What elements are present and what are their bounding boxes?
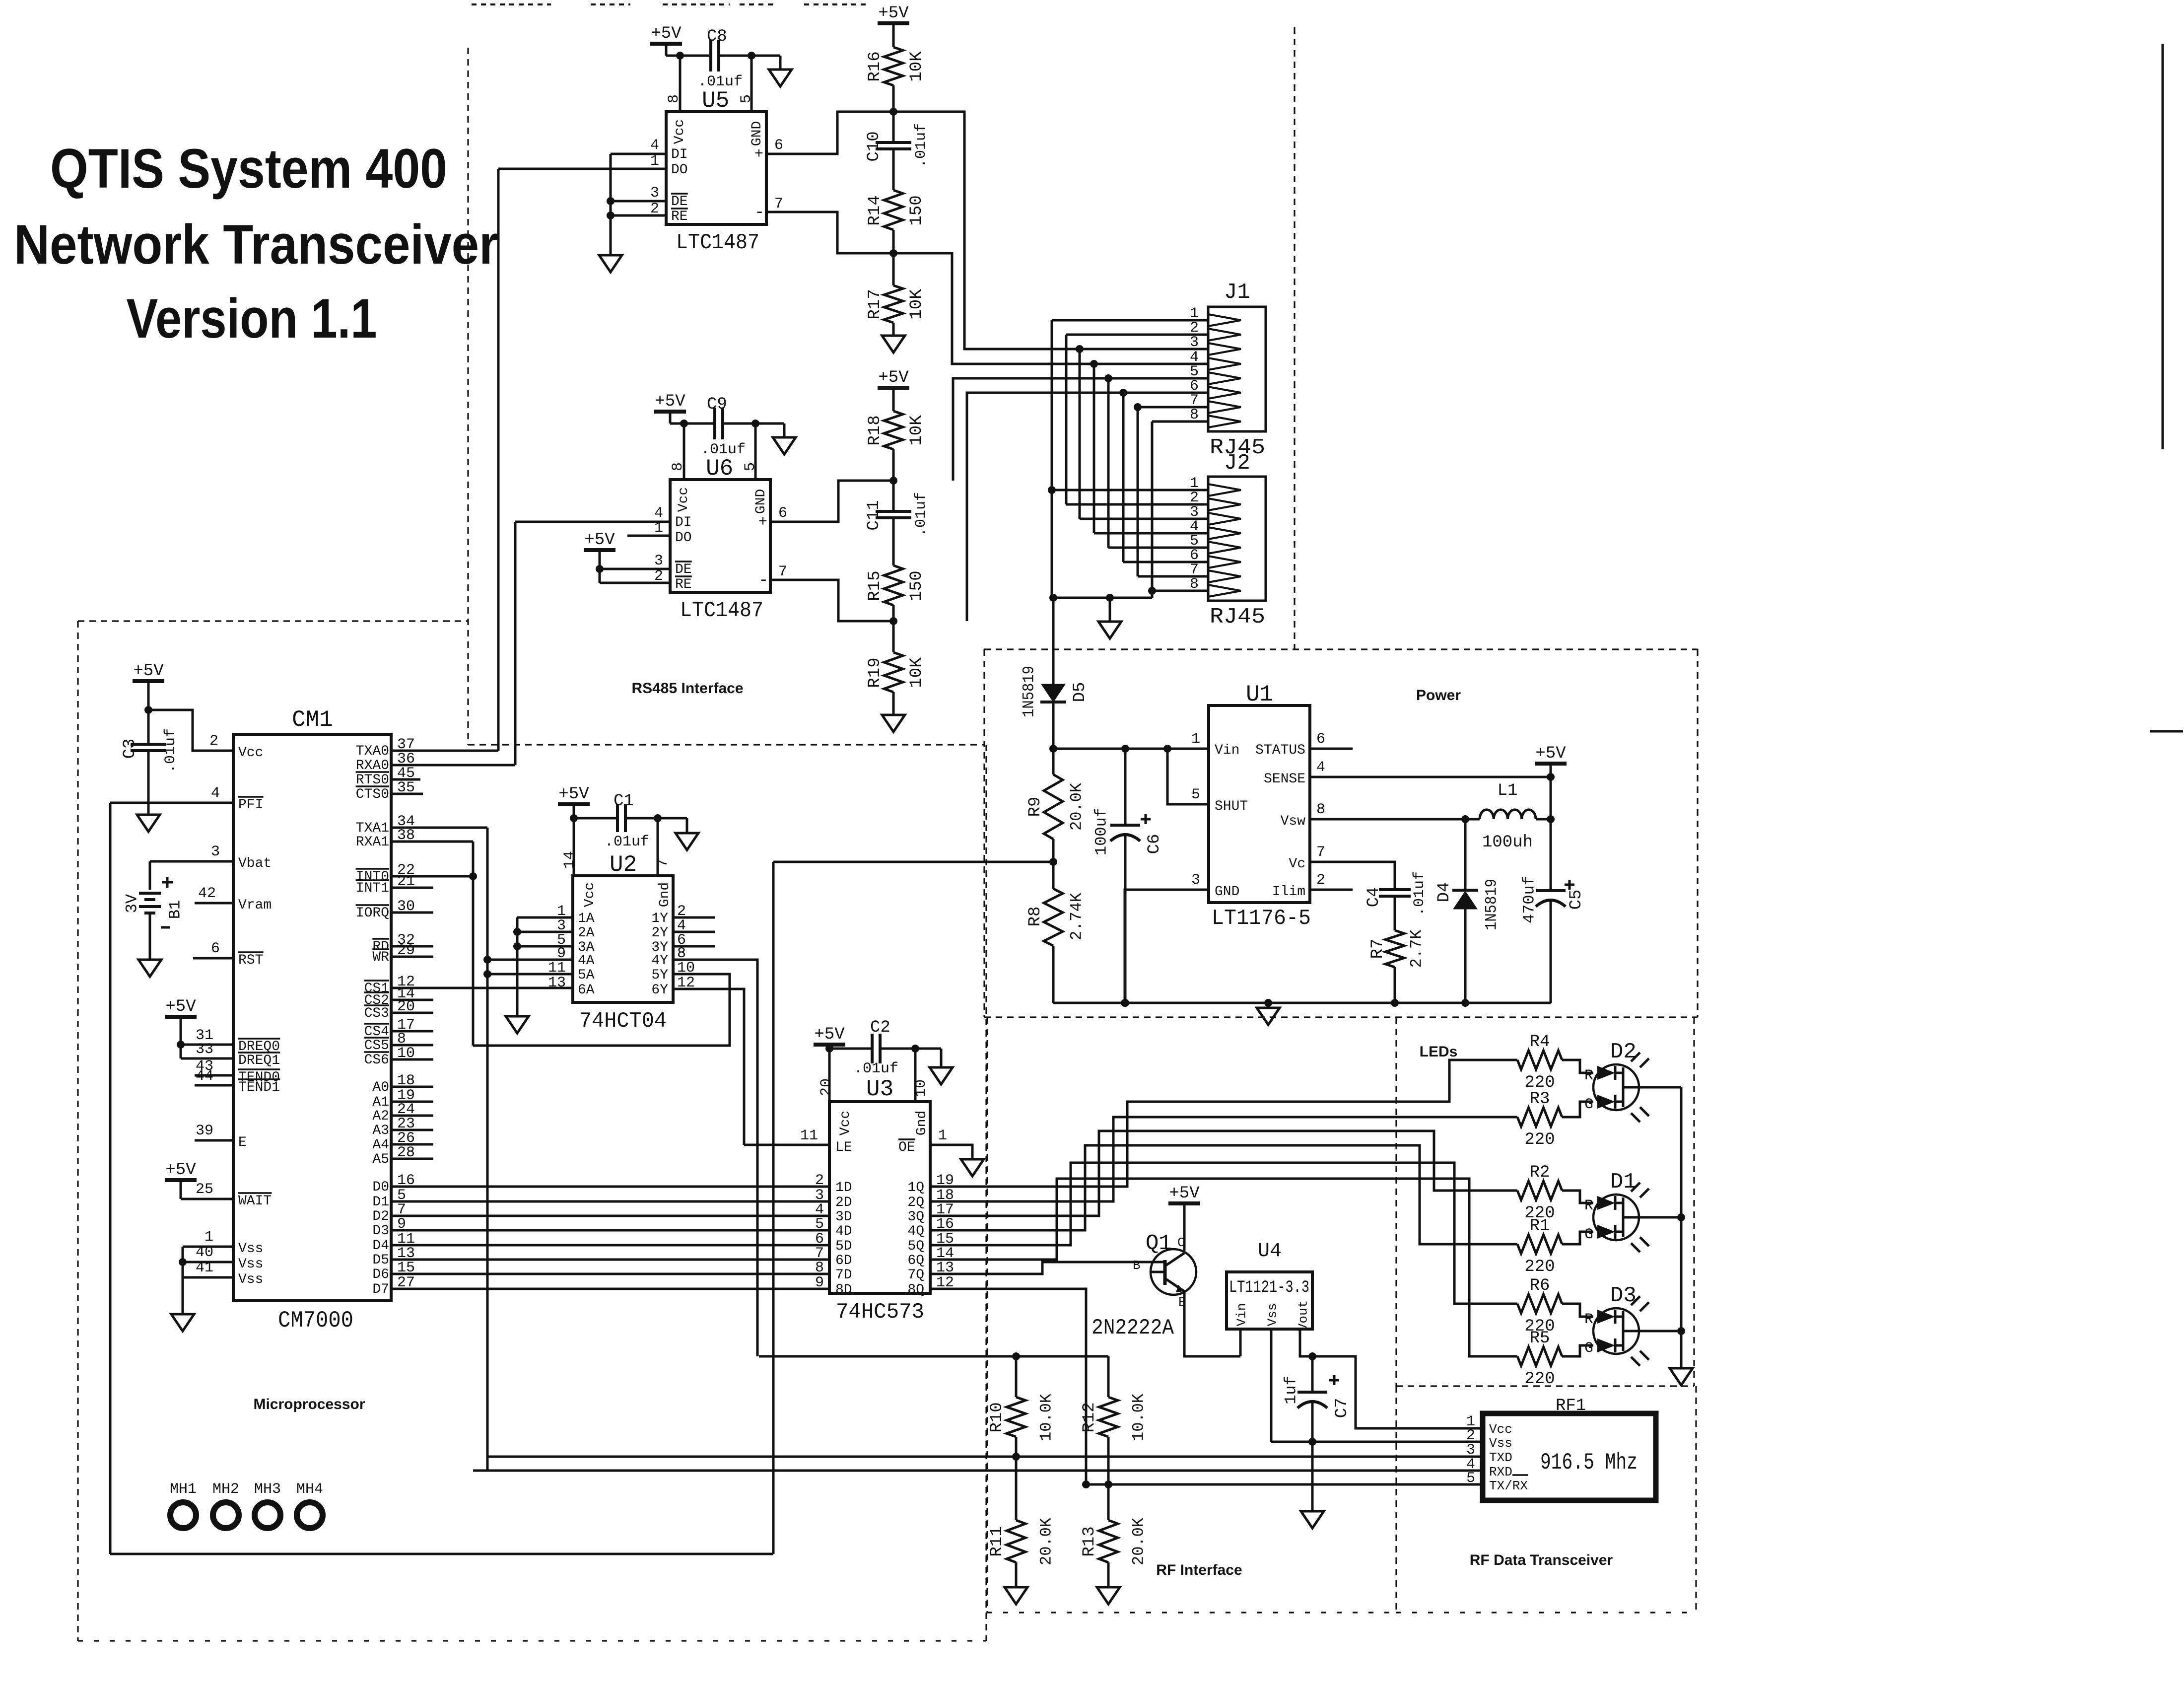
wire shield rail [1052,597,1152,599]
wire J2.8 feed [1152,590,1208,592]
svg-text:Vss: Vss [1489,1436,1512,1451]
resistor R2 220 [1482,1190,1517,1192]
stub 2Y [673,931,715,933]
svg-text:IORQ: IORQ [356,906,389,921]
svg-text:LE: LE [835,1140,852,1155]
wire 6Q to R5 [930,1179,1482,1356]
svg-text:220: 220 [1524,1370,1555,1389]
op-amp-box U5 LTC1487 [666,112,766,224]
svg-text:RST: RST [238,953,263,968]
svg-text:.01uf: .01uf [698,73,743,90]
svg-text:C6: C6 [1145,834,1164,854]
wire pin5 (U6) [754,423,757,480]
stub 1Y [673,916,715,919]
svg-text:QTIS System 400: QTIS System 400 [50,138,447,200]
svg-text:14: 14 [561,851,578,869]
mounting hole MH1 [170,1502,196,1528]
ground (C7) [1301,1511,1324,1528]
svg-text:+5V: +5V [878,368,909,387]
svg-text:+5V: +5V [878,4,909,23]
svg-text:Vcc: Vcc [838,1111,853,1135]
svg-text:100uh: 100uh [1482,833,1533,852]
wire 4Y to pullup rail [673,960,757,1356]
svg-text:G: G [1584,1226,1593,1243]
wire 4A from TXA1 [487,959,573,961]
transistor Q1 2N2222A [1151,1249,1196,1295]
svg-text:+5V: +5V [651,24,682,43]
svg-text:B: B [1133,1258,1141,1273]
resistor R18 10K [884,411,903,449]
LEDs section border [1395,1017,1397,1386]
svg-text:A4: A4 [372,1137,389,1153]
RF Data Transceiver section border [1395,1386,1397,1613]
svg-text:10K: 10K [907,289,926,320]
wire 8Q to RF TX/RX [930,1289,1086,1484]
svg-text:G: G [1584,1340,1593,1357]
svg-text:C4: C4 [1365,887,1383,908]
wire 5Y loop to RXA1 [473,974,730,1046]
battery B1 3V [139,892,161,895]
svg-text:U6: U6 [706,456,733,482]
svg-text:Gnd: Gnd [914,1111,930,1135]
wire R10-R11 link [1015,1437,1018,1520]
svg-text:2N2222A: 2N2222A [1092,1316,1174,1340]
wire J1.1 to J2.1/J2.8 tie [1052,319,1208,322]
svg-text:MH1: MH1 [170,1481,197,1498]
svg-text:Vram: Vram [238,898,272,913]
svg-text:RXD: RXD [1489,1465,1512,1479]
page edge artifact right [2162,44,2164,449]
svg-text:TXA0: TXA0 [356,744,389,759]
svg-text:U1: U1 [1246,682,1273,707]
svg-text:LT1176-5: LT1176-5 [1212,906,1311,931]
wire U4 Vout to RF Vcc [1300,1329,1483,1428]
wire LED common bus [1680,1087,1683,1368]
svg-text:5A: 5A [578,968,595,983]
capacitor C7 1uf [1311,1356,1314,1392]
svg-text:MH4: MH4 [296,1481,323,1498]
svg-text:R5: R5 [1530,1329,1550,1348]
svg-text:7: 7 [774,196,783,212]
svg-text:D4: D4 [1435,882,1454,903]
wire U2 inputs ground tie [517,916,573,919]
svg-text:WAIT: WAIT [238,1194,272,1209]
ground (Vss) [171,1314,194,1331]
svg-text:7: 7 [778,563,787,580]
svg-text:C8: C8 [707,27,727,46]
resistor R16 10K [884,47,903,85]
svg-text:39: 39 [196,1123,213,1139]
wire pin5 [751,56,753,112]
svg-text:Q1: Q1 [1146,1231,1172,1256]
svg-text:8Q: 8Q [907,1282,924,1298]
wire J1.6 tap to J2.6 [1119,389,1127,397]
wire 7Q to Q1 base [930,1262,1165,1274]
ground (J2 rail) [1109,598,1111,622]
svg-text:CM1: CM1 [292,707,333,733]
svg-text:2A: 2A [578,925,595,941]
svg-text:OE: OE [898,1140,915,1155]
wire 1Q to R4 [930,1060,1482,1187]
IC U3 74HC573 [829,1102,930,1293]
svg-text:C5: C5 [1567,890,1586,910]
+5V rail (U6) [654,410,686,414]
svg-text:R: R [1584,1067,1593,1084]
capacitor C6 100uf [1124,749,1127,825]
svg-text:Vout: Vout [1296,1300,1310,1331]
svg-text:.01uf: .01uf [162,728,179,773]
IC U2 74HCT04 [573,876,673,1002]
svg-text:+5V: +5V [1169,1184,1200,1203]
svg-text:R9: R9 [1026,797,1045,817]
svg-text:74HCT04: 74HCT04 [579,1009,667,1034]
svg-text:1A: 1A [578,911,595,926]
svg-text:Vcc: Vcc [238,745,263,761]
wire 5A from TXA1 [487,973,573,976]
svg-text:C1: C1 [614,792,634,811]
svg-text:6D: 6D [835,1253,852,1268]
svg-text:DI: DI [671,147,688,162]
ground (U2 inputs) [506,1016,529,1033]
svg-text:MH2: MH2 [212,1481,239,1498]
svg-text:Ilim: Ilim [1272,884,1305,900]
svg-text:DO: DO [671,162,688,178]
LED D2 dual R/G [1593,1064,1639,1110]
svg-text:R10: R10 [988,1402,1007,1432]
wire C1 right / gnd [625,817,687,820]
svg-text:8D: 8D [835,1282,852,1298]
svg-text:4D: 4D [835,1224,852,1239]
svg-text:D2: D2 [1610,1040,1637,1064]
svg-text:1N5819: 1N5819 [1020,666,1038,717]
resistor R7 2.7K [1385,930,1404,967]
svg-text:6A: 6A [578,983,595,998]
wire U6 Vcc [670,422,715,425]
svg-text:100uf: 100uf [1092,808,1111,855]
resistor R10 10.0K [1015,1356,1018,1397]
svg-text:L1: L1 [1498,781,1518,800]
resistor R8 2.74K [1044,889,1063,946]
svg-text:GND: GND [750,121,765,146]
svg-text:R15: R15 [866,570,885,601]
svg-text:3V: 3V [123,894,141,913]
svg-text:20: 20 [818,1078,835,1096]
svg-text:LEDs: LEDs [1420,1044,1458,1060]
ground (OE) [961,1159,984,1176]
svg-text:+5V: +5V [655,392,685,411]
svg-text:1D: 1D [835,1180,852,1196]
svg-text:4: 4 [654,505,663,522]
svg-text:.01uf: .01uf [913,492,930,537]
wire J1.5 tap to J2.5 [1104,374,1112,382]
svg-text:5: 5 [1191,786,1200,803]
svg-text:2.74K: 2.74K [1068,892,1086,940]
svg-text:R13: R13 [1080,1526,1099,1556]
svg-text:.01uf: .01uf [854,1060,898,1077]
ground (C3) [137,815,160,832]
svg-text:+5V: +5V [584,531,615,550]
resistor R17 10K [884,285,903,323]
svg-text:6Q: 6Q [907,1253,924,1268]
IC U1 LT1176-5 [1209,705,1310,903]
wire R1 to D1.G [1562,1232,1593,1244]
resistor R6 220 [1482,1303,1517,1305]
svg-text:R1: R1 [1530,1217,1550,1236]
svg-text:11: 11 [800,1127,818,1144]
ground (LED bus) [1670,1368,1693,1385]
svg-text:3: 3 [1191,872,1200,889]
wire U4 Vin lead [1239,1329,1242,1356]
resistor R13 20.0K [1099,1520,1118,1562]
svg-text:D4: D4 [372,1238,389,1254]
svg-text:74HC573: 74HC573 [836,1300,924,1325]
wire U5 DO to TXA0 [497,169,500,751]
svg-text:1N5819: 1N5819 [1483,879,1501,930]
svg-text:D3: D3 [372,1223,389,1239]
resistor R14 150 [884,190,903,230]
svg-text:A1: A1 [372,1095,389,1110]
svg-text:U3: U3 [866,1076,893,1102]
svg-text:D1: D1 [1610,1170,1637,1195]
svg-text:TEND1: TEND1 [238,1080,280,1095]
wire Vcc [148,710,233,751]
svg-text:+5V: +5V [165,997,196,1016]
svg-text:1Y: 1Y [651,911,668,926]
ground (C8) [779,56,782,70]
svg-text:+: + [754,146,763,163]
wire U5 Vcc [666,55,711,57]
wire J1.3 tap to J2.3 [1076,345,1084,353]
svg-text:D5: D5 [1071,682,1090,703]
svg-text:Vc: Vc [1289,856,1305,872]
svg-text:10K: 10K [907,657,926,688]
svg-text:Vcc: Vcc [582,882,598,907]
svg-text:.01uf: .01uf [913,123,930,168]
wire R12-R13 link [1107,1437,1110,1520]
wire node D to J1.6 [967,393,1208,621]
svg-text:LTC1487: LTC1487 [680,598,763,623]
wire U2 pin14 [573,818,575,876]
svg-text:D5: D5 [372,1253,389,1268]
LED D1 dual R/G [1593,1195,1639,1240]
svg-text:1: 1 [650,153,659,170]
svg-text:2Q: 2Q [907,1195,924,1210]
svg-text:D7: D7 [372,1282,389,1297]
svg-text:B1: B1 [166,900,185,919]
svg-text:RE: RE [671,209,688,224]
svg-text:+5V: +5V [133,662,164,681]
svg-text:DO: DO [675,530,692,546]
svg-text:+5V: +5V [1535,744,1566,763]
wire PFI sense vertical [772,862,775,1554]
svg-text:INT1: INT1 [356,881,389,896]
svg-text:R: R [1584,1197,1593,1214]
svg-text:42: 42 [198,885,216,902]
IC CM1 CM7000 [233,734,391,1301]
svg-text:C7: C7 [1333,1398,1352,1418]
Microprocessor section border [78,620,468,622]
op-amp-box U6 LTC1487 [670,480,770,592]
wire R6 to D3.R [1562,1304,1593,1317]
connector J1 RJ45 [1208,307,1266,431]
module RF1 916.5 Mhz [1483,1413,1656,1500]
+5V rail (U5) [650,42,682,46]
RF Interface section border [986,1017,988,1613]
svg-text:8: 8 [1316,801,1325,818]
resistor R1 220 [1482,1243,1517,1246]
svg-text:TXD: TXD [1489,1450,1512,1465]
svg-text:Vin: Vin [1234,1303,1249,1327]
ground (C9) [783,423,786,437]
svg-text:5Y: 5Y [651,968,668,983]
svg-text:4A: 4A [578,953,595,969]
svg-text:4Q: 4Q [907,1224,924,1239]
svg-text:J1: J1 [1224,280,1250,305]
wire J1.7 to J2.7 [1138,406,1208,409]
svg-text:Vss: Vss [238,1241,263,1257]
wire 3Q to R2 [930,1131,1482,1216]
capacitor C1 .01uf [616,804,619,832]
wire RXA0 from U6 DI [391,764,515,767]
svg-text:+5V: +5V [814,1025,845,1044]
svg-text:.01uf: .01uf [605,834,649,850]
svg-text:DI: DI [675,515,692,530]
wire R2 to D1.R [1562,1191,1593,1203]
svg-text:13: 13 [548,975,566,991]
svg-text:470uf: 470uf [1520,876,1539,923]
mounting hole MH3 [255,1502,280,1528]
+5V rail (Q1) [1168,1201,1200,1205]
capacitor C11 .01uf [876,510,911,513]
svg-text:C9: C9 [707,395,727,414]
svg-text:3Q: 3Q [907,1209,924,1225]
wire U4 Vss lead [1270,1329,1273,1442]
svg-text:R11: R11 [988,1526,1007,1556]
svg-text:D6: D6 [372,1267,389,1282]
svg-text:150: 150 [907,570,926,601]
node PFI divider junction [1049,858,1057,866]
wire TXA1 [391,827,487,829]
wire J1.8 to J2.8 [1152,421,1208,423]
svg-text:Version 1.1: Version 1.1 [127,287,377,350]
svg-text:LT1121-3.3: LT1121-3.3 [1229,1278,1309,1297]
svg-text:C11: C11 [865,500,884,530]
svg-text:C: C [1177,1235,1185,1250]
svg-text:6: 6 [1316,731,1325,748]
+5V rail (R18) [878,386,909,390]
svg-text:CS3: CS3 [364,1006,389,1021]
svg-text:10K: 10K [907,51,926,82]
svg-text:4: 4 [1316,759,1325,776]
Power section border [984,648,1698,650]
svg-text:Vcc: Vcc [676,487,691,512]
resistor R15 150 [884,565,903,605]
wire J1.2 to J2.2 [1066,334,1208,336]
svg-text:2: 2 [209,733,218,750]
svg-text:2.7K: 2.7K [1408,929,1426,968]
svg-text:Microprocessor: Microprocessor [253,1396,365,1412]
svg-text:.01uf: .01uf [1411,871,1428,916]
svg-text:RF Data Transceiver: RF Data Transceiver [1470,1552,1613,1568]
svg-text:RF Interface: RF Interface [1156,1562,1242,1578]
resistor R12 10.0K [1107,1356,1110,1397]
+5V rail (CM1 Vcc) [133,679,164,683]
wire pin8 (U6) [683,423,685,480]
svg-text:1Q: 1Q [907,1180,924,1196]
wire J1.4 tap to J2.4 [1090,360,1098,368]
wire RXD line [473,1470,1483,1472]
wire Q1 emitter to U4 Vin [1184,1291,1240,1356]
svg-text:A2: A2 [372,1109,389,1124]
svg-text:33: 33 [196,1041,213,1058]
svg-text:+5V: +5V [558,785,589,804]
svg-text:G: G [1584,1096,1593,1113]
wire 6Y to U3 LE [673,989,744,1145]
svg-text:CM7000: CM7000 [278,1308,353,1334]
wire C9 gnd [723,422,784,425]
svg-text:2D: 2D [835,1195,852,1210]
svg-text:SENSE: SENSE [1264,772,1305,787]
wire power ground rail [1053,1002,1551,1004]
wire node A to J1.3 [893,112,1208,349]
wire U6 DI to RXA0 [514,522,517,765]
wire U4 Vss to RF Vss [1271,1441,1483,1443]
svg-text:Power: Power [1416,687,1461,703]
svg-text:2: 2 [1316,872,1325,889]
node B junction [889,249,897,257]
svg-text:TX/RX: TX/RX [1489,1478,1528,1493]
svg-text:U2: U2 [610,852,637,878]
inductor L1 100uh [1461,815,1469,823]
svg-text:DE: DE [675,562,692,577]
svg-text:WR: WR [372,950,389,965]
svg-text:J2: J2 [1224,451,1250,476]
wire divider junction to PFI [773,861,1053,863]
svg-text:RS485 Interface: RS485 Interface [631,680,743,697]
svg-text:Gnd: Gnd [657,882,673,907]
connector J2 RJ45 [1208,477,1266,601]
svg-text:4: 4 [211,785,220,802]
svg-text:Vss: Vss [238,1257,263,1272]
svg-text:7: 7 [1316,844,1325,861]
svg-text:E: E [238,1135,247,1150]
capacitor C8 [709,40,712,71]
svg-text:C3: C3 [121,739,139,759]
+5V rail (U6 DE/RE) [584,548,615,552]
ground (R19) [882,715,905,732]
diode D5 1N5819 [1041,684,1065,702]
svg-text:Vin: Vin [1215,743,1239,758]
wire pullup rail (PFI sense) [759,1355,1108,1358]
svg-text:1: 1 [1191,731,1200,748]
svg-text:4: 4 [650,137,659,154]
wire RXA1 [391,841,473,843]
svg-text:+5V: +5V [165,1161,196,1180]
wire pin8 [679,56,682,112]
wire J2.1 feed [1052,489,1208,492]
capacitor C4 .01uf [1379,888,1411,891]
svg-text:2Y: 2Y [651,925,668,941]
svg-text:TXA1: TXA1 [356,821,389,836]
svg-text:3D: 3D [835,1209,852,1225]
ground (R11) [1005,1587,1027,1604]
svg-text:GND: GND [753,489,769,514]
svg-text:3: 3 [654,553,663,569]
ground (B1) [138,960,161,977]
svg-text:Vsw: Vsw [1281,814,1306,829]
svg-text:10.0K: 10.0K [1037,1393,1056,1441]
resistor R5 220 [1482,1355,1517,1358]
